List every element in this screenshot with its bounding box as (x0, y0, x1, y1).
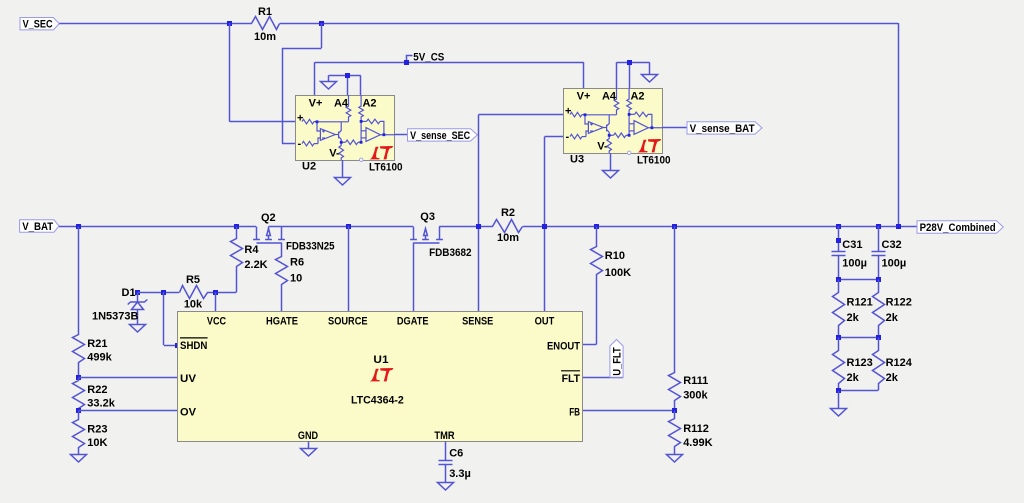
svg-text:10K: 10K (87, 437, 107, 449)
svg-text:V_sense_BAT: V_sense_BAT (690, 123, 755, 135)
svg-text:OUT: OUT (535, 315, 555, 327)
resistor R22 (73, 378, 85, 411)
capacitor C32 (872, 252, 886, 256)
svg-text:ENOUT: ENOUT (547, 340, 580, 352)
svg-text:3.3µ: 3.3µ (449, 468, 471, 480)
junction (836, 238, 841, 243)
svg-text:2k: 2k (847, 312, 860, 324)
wire (164, 345, 178, 347)
net flag U_FLT (610, 340, 623, 378)
junction (876, 277, 881, 282)
junction (135, 290, 140, 295)
svg-text:4.99K: 4.99K (683, 437, 712, 449)
wire (59, 226, 256, 228)
svg-text:100K: 100K (605, 267, 631, 279)
svg-text:R124: R124 (886, 357, 913, 369)
svg-text:499k: 499k (87, 352, 112, 364)
svg-text:FB: FB (569, 407, 580, 419)
svg-text:R122: R122 (886, 297, 912, 309)
resistor R6 (276, 243, 288, 312)
resistor R5 (180, 286, 208, 299)
wire (583, 377, 623, 379)
svg-text:SHDN: SHDN (180, 340, 207, 352)
wire (329, 75, 361, 77)
svg-text:GND: GND (298, 430, 318, 442)
wire (583, 344, 596, 346)
svg-text:LT6100: LT6100 (637, 155, 671, 167)
svg-text:U2: U2 (302, 160, 316, 172)
svg-text:V_BAT: V_BAT (22, 221, 53, 233)
wire (207, 292, 236, 294)
junction (594, 224, 599, 229)
junction (542, 224, 547, 229)
net 5V_CS wire (315, 62, 584, 64)
wire (215, 292, 217, 311)
ground (301, 449, 317, 457)
op-amp U3 LT6100 (564, 88, 663, 155)
resistor R123 (833, 338, 845, 391)
ground (438, 483, 454, 491)
svg-text:10m: 10m (254, 31, 276, 43)
wire (617, 62, 650, 64)
wire (545, 136, 564, 138)
capacitor C31 (832, 252, 846, 256)
wire (478, 115, 480, 312)
wire (314, 62, 316, 95)
ground (71, 455, 87, 463)
svg-text:R22: R22 (87, 384, 107, 396)
junction (404, 60, 409, 65)
wire (838, 255, 840, 279)
wire (138, 292, 180, 294)
svg-text:FLT: FLT (562, 373, 581, 385)
svg-text:HGATE: HGATE (266, 315, 298, 327)
wire (347, 75, 349, 95)
ground (603, 171, 619, 179)
svg-text:10k: 10k (184, 299, 203, 311)
wire (544, 137, 546, 312)
resistor R10 (591, 227, 603, 345)
junction (672, 224, 677, 229)
svg-text:P28V_Combined: P28V_Combined (920, 222, 996, 234)
svg-text:100µ: 100µ (842, 258, 867, 270)
junction (175, 343, 180, 348)
svg-text:V_sense_SEC: V_sense_SEC (410, 130, 470, 142)
svg-text:V_SEC: V_SEC (23, 19, 53, 31)
wire (583, 410, 675, 412)
svg-text:R6: R6 (290, 256, 304, 268)
wire (839, 279, 878, 281)
wire (282, 48, 322, 50)
svg-text:C31: C31 (842, 239, 862, 251)
svg-text:TMR: TMR (434, 430, 454, 442)
resistor R121 (833, 280, 845, 338)
ground (642, 75, 658, 83)
resistor R23 (73, 411, 85, 455)
junction (627, 60, 632, 65)
wire (79, 410, 178, 412)
svg-text:R2: R2 (501, 207, 515, 219)
svg-text:C6: C6 (449, 448, 463, 460)
wire (838, 391, 840, 409)
logo U1 (370, 368, 394, 381)
svg-text:R112: R112 (683, 423, 709, 435)
wire (616, 62, 618, 88)
svg-text:SOURCE: SOURCE (328, 315, 368, 327)
svg-text:SENSE: SENSE (462, 315, 493, 327)
IC U1 LTC4364-2 (178, 312, 583, 442)
svg-text:300k: 300k (683, 390, 708, 402)
svg-text:2k: 2k (847, 372, 860, 384)
svg-text:33.2k: 33.2k (87, 397, 115, 409)
ground (321, 82, 337, 90)
net label 5V_CS leader (407, 56, 413, 63)
net flag P28V_Combined (917, 221, 1003, 233)
wire (523, 226, 917, 228)
svg-text:FDB3682: FDB3682 (429, 247, 471, 259)
wire (629, 62, 631, 88)
wire (308, 441, 310, 448)
svg-text:R4: R4 (244, 244, 259, 256)
wire (839, 390, 878, 392)
wire (439, 226, 493, 228)
svg-text:1N5373B: 1N5373B (92, 310, 139, 322)
junction (836, 388, 841, 393)
resistor R112 (669, 411, 681, 455)
svg-text:R23: R23 (87, 424, 107, 436)
transistor Q2 FDB33N25 (253, 227, 285, 244)
wire (445, 465, 447, 483)
ground (130, 325, 146, 333)
svg-text:LT6100: LT6100 (369, 162, 403, 174)
wire (79, 377, 178, 379)
wire (269, 226, 413, 228)
wire (583, 62, 585, 88)
junction (672, 408, 677, 413)
transistor Q3 FDB3682 (410, 227, 443, 244)
wire (230, 121, 296, 123)
diode D1 1N5373B (128, 293, 148, 325)
svg-text:OV: OV (180, 407, 197, 419)
svg-text:LTC4364-2: LTC4364-2 (351, 395, 404, 407)
wire (838, 226, 840, 251)
svg-text:DGATE: DGATE (397, 315, 429, 327)
junction (234, 224, 239, 229)
svg-text:D1: D1 (122, 287, 136, 299)
wire (229, 23, 231, 122)
svg-text:R10: R10 (605, 250, 625, 262)
wire (282, 48, 284, 144)
wire (662, 127, 687, 129)
junction (876, 335, 881, 340)
resistor R122 (873, 280, 885, 338)
svg-text:C32: C32 (882, 239, 902, 251)
junction (76, 224, 81, 229)
svg-text:Q3: Q3 (420, 211, 435, 223)
svg-text:R123: R123 (847, 357, 873, 369)
svg-text:R5: R5 (186, 274, 200, 286)
svg-text:10m: 10m (497, 232, 519, 244)
wire (878, 226, 880, 251)
junction (836, 277, 841, 282)
wire (282, 143, 295, 145)
wire (342, 160, 344, 177)
resistor R1 (252, 17, 280, 30)
wire (898, 23, 900, 226)
junction (476, 224, 481, 229)
ground (667, 455, 683, 463)
svg-text:FDB33N25: FDB33N25 (286, 240, 335, 252)
resistor R2 (493, 220, 523, 233)
svg-text:U_FLT: U_FLT (612, 347, 624, 376)
wire (649, 62, 651, 74)
wire (163, 292, 165, 345)
wire (839, 337, 878, 339)
net flag V_sense_BAT (687, 122, 762, 134)
junction (836, 224, 841, 229)
junction (346, 224, 351, 229)
junction (213, 290, 218, 295)
junction (227, 21, 232, 26)
svg-text:UV: UV (180, 373, 197, 385)
junction (896, 224, 901, 229)
junction (319, 21, 324, 26)
svg-text:2.2K: 2.2K (244, 259, 267, 271)
wire (394, 134, 408, 136)
wire (610, 153, 612, 170)
net flag V_sense_SEC (408, 129, 478, 141)
svg-text:Q2: Q2 (261, 212, 276, 224)
junction (876, 224, 881, 229)
wire (360, 75, 362, 95)
svg-text:R121: R121 (847, 297, 873, 309)
svg-text:R1: R1 (258, 6, 272, 18)
resistor R111 (669, 227, 681, 411)
svg-text:10: 10 (290, 272, 302, 284)
svg-text:U1: U1 (373, 354, 388, 366)
resistor R21 (73, 227, 85, 378)
junction (76, 375, 81, 380)
net flag V_BAT (20, 220, 59, 232)
junction (76, 408, 81, 413)
resistor R4 (231, 227, 243, 293)
wire (479, 114, 564, 116)
wire (878, 255, 880, 279)
svg-text:2k: 2k (886, 372, 899, 384)
wire (321, 23, 323, 48)
wire (445, 441, 447, 460)
svg-text:VCC: VCC (207, 315, 226, 327)
svg-text:5V_CS: 5V_CS (413, 51, 444, 63)
resistor R124 (873, 338, 885, 391)
svg-text:2k: 2k (886, 312, 899, 324)
wire (328, 75, 330, 82)
capacitor C6 (439, 461, 453, 465)
svg-text:R111: R111 (683, 375, 708, 387)
junction (345, 73, 350, 78)
wire (348, 226, 350, 311)
junction (836, 335, 841, 340)
ground (831, 409, 847, 417)
wire (59, 23, 252, 25)
svg-text:R21: R21 (87, 338, 107, 350)
svg-text:U3: U3 (570, 153, 584, 165)
svg-text:100µ: 100µ (882, 258, 907, 270)
junction (161, 290, 166, 295)
op-amp U2 LT6100 (296, 95, 395, 162)
net flag V_SEC (20, 18, 59, 30)
wire (280, 23, 898, 25)
ground (335, 178, 351, 186)
wire (413, 243, 415, 312)
